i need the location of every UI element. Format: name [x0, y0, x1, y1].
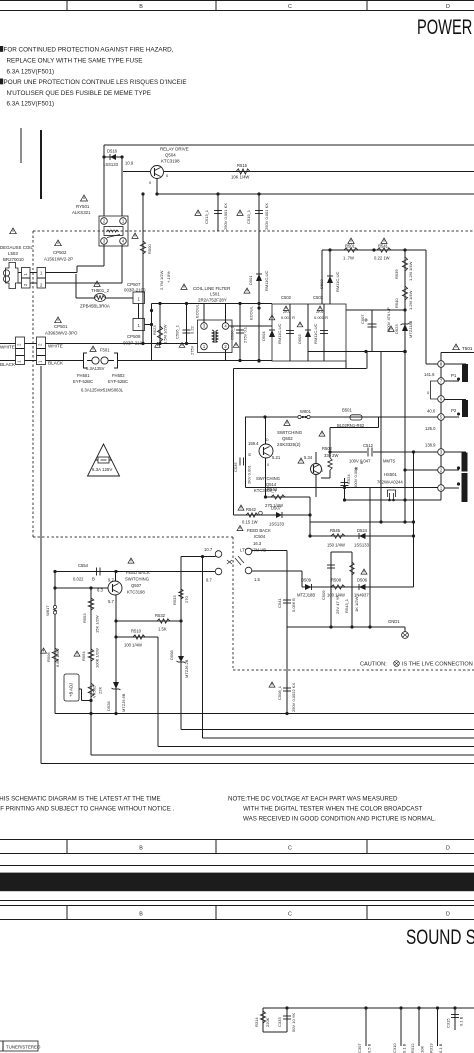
svg-text:100 1/4W: 100 1/4W [124, 643, 142, 648]
svg-text:1: 1 [138, 297, 141, 302]
svg-text:10.7: 10.7 [204, 547, 213, 552]
svg-text:C509: C509 [321, 590, 326, 600]
svg-text:1: 1 [23, 273, 28, 276]
svg-text:D: D [446, 912, 450, 918]
svg-text:0.22: 0.22 [190, 325, 195, 334]
svg-text:0.5 B: 0.5 B [367, 1043, 372, 1053]
svg-text:R312: R312 [410, 1043, 415, 1053]
svg-text:250V 0.0022 KX: 250V 0.0022 KX [291, 683, 296, 712]
svg-text:B: B [359, 461, 364, 464]
svg-text:WHITE: WHITE [48, 344, 63, 349]
svg-text:EYF-52BC: EYF-52BC [108, 379, 128, 384]
svg-text:FH502: FH502 [112, 373, 125, 378]
svg-text:2KV 0.001: 2KV 0.001 [247, 465, 252, 484]
svg-text:POUR UNE PROTECTION CONTINUE L: POUR UNE PROTECTION CONTINUE LES RISQUES… [4, 79, 187, 86]
svg-text:C333: C333 [277, 1017, 282, 1027]
svg-text:D524: D524 [357, 528, 368, 533]
svg-text:MTZJ5.6B: MTZJ5.6B [121, 693, 126, 712]
svg-text:762WAA0244: 762WAA0244 [377, 480, 403, 485]
svg-text:5.7: 5.7 [108, 599, 114, 604]
svg-text:Q502: Q502 [282, 436, 293, 441]
svg-text:D509: D509 [301, 578, 312, 583]
svg-text:Q504: Q504 [165, 153, 176, 158]
svg-text:B501: B501 [342, 408, 352, 413]
svg-text:CP501: CP501 [54, 324, 68, 329]
svg-text:W817: W817 [45, 605, 50, 616]
svg-text:N'UTOLISER QUE DES FUSIBLE DE: N'UTOLISER QUE DES FUSIBLE DE MEME TYPE [7, 90, 151, 97]
svg-text:15K 1/2W: 15K 1/2W [95, 615, 100, 633]
svg-text:CP502: CP502 [53, 250, 67, 255]
svg-text:10K: 10K [420, 1046, 425, 1053]
svg-text:B: B [139, 846, 143, 852]
svg-text:D: D [266, 438, 269, 442]
svg-text:R: R [247, 453, 252, 456]
svg-text:R545: R545 [330, 528, 341, 533]
svg-text:KTC3198: KTC3198 [161, 159, 180, 164]
svg-text:C: C [288, 912, 292, 918]
svg-text:D502: D502 [319, 279, 324, 289]
svg-text:R510: R510 [131, 629, 142, 634]
svg-text:6.3A125Vor51MS063L: 6.3A125Vor51MS063L [81, 388, 124, 393]
svg-text:FOR CONTINUED PROTECTION AGAIN: FOR CONTINUED PROTECTION AGAINST FIRE HA… [4, 47, 174, 54]
svg-text:MTZJ18B: MTZJ18B [297, 593, 315, 598]
svg-text:A1561WV2-2P: A1561WV2-2P [44, 257, 73, 262]
svg-text:ZPB45BL3R0A: ZPB45BL3R0A [80, 304, 110, 309]
svg-text:P1: P1 [451, 373, 457, 378]
svg-text:MTZJ6.2B: MTZJ6.2B [184, 659, 189, 678]
svg-text:POWER SUPPLY: POWER SUPPLY [417, 15, 474, 39]
svg-text:C535: C535 [233, 462, 238, 472]
svg-text:0: 0 [321, 469, 323, 473]
svg-text:1: 1 [40, 270, 43, 275]
svg-text:250V 0.001 KX: 250V 0.001 KX [223, 203, 228, 230]
svg-text:2: 2 [38, 343, 43, 346]
svg-text:275V: 275V [190, 345, 195, 355]
svg-text:BLACK: BLACK [0, 362, 16, 367]
svg-text:C524: C524 [346, 474, 351, 484]
svg-text:RELAY DRIVE: RELAY DRIVE [160, 147, 189, 152]
svg-text:0.001 R: 0.001 R [281, 315, 295, 320]
svg-text:1: 1 [138, 323, 141, 328]
svg-text:2: 2 [17, 343, 22, 346]
svg-text:L501: L501 [210, 292, 220, 297]
svg-text:D507: D507 [271, 506, 282, 511]
svg-text:0.056 B: 0.056 B [291, 598, 296, 612]
svg-text:2R2A752F28Y: 2R2A752F28Y [198, 298, 227, 303]
svg-text:R542: R542 [246, 507, 257, 512]
svg-text:R540: R540 [394, 298, 399, 308]
svg-text:FEED BACK: FEED BACK [126, 570, 150, 575]
svg-text:L503: L503 [8, 251, 18, 256]
svg-text:CP508: CP508 [127, 334, 141, 339]
svg-text:R543_1: R543_1 [344, 598, 349, 613]
svg-text:100K 1/2W: 100K 1/2W [95, 648, 100, 668]
svg-text:0.001 R: 0.001 R [314, 315, 328, 320]
svg-text:A3963WV2-3PO: A3963WV2-3PO [45, 331, 78, 336]
svg-text:GND1: GND1 [388, 619, 400, 624]
svg-text:LTV-817M-VB: LTV-817M-VB [240, 548, 266, 553]
svg-text:ECOUL: ECOUL [195, 303, 200, 318]
svg-text:0.1 B: 0.1 B [438, 1043, 443, 1053]
svg-text:0.15 1W: 0.15 1W [242, 520, 258, 525]
svg-text:0: 0 [267, 463, 269, 467]
svg-text:C554: C554 [78, 563, 89, 568]
svg-text:5.34: 5.34 [304, 455, 313, 460]
svg-text:150 1/4W: 150 1/4W [327, 543, 345, 548]
svg-text:RM11C-UC: RM11C-UC [264, 271, 269, 291]
svg-text:2.7M 1/2W: 2.7M 1/2W [159, 270, 164, 290]
svg-text:16.3: 16.3 [253, 541, 262, 546]
svg-text:TUNER/STEREO: TUNER/STEREO [6, 1045, 41, 1050]
svg-text:C519_1: C519_1 [246, 209, 251, 224]
svg-text:WITH THE DIGITAL TESTER WHEN T: WITH THE DIGITAL TESTER WHEN THE COLOR B… [243, 806, 423, 813]
svg-text:R532: R532 [155, 613, 166, 618]
svg-text:RY501: RY501 [76, 204, 90, 209]
svg-text:1.5M 1/2W: 1.5M 1/2W [163, 324, 168, 344]
svg-text:KTC3203_Y: KTC3203_Y [254, 488, 277, 493]
svg-text:P2: P2 [451, 408, 457, 413]
svg-text:50V 10 YK: 50V 10 YK [291, 1013, 296, 1032]
svg-text:0.1 B: 0.1 B [402, 1043, 407, 1053]
svg-text:C: C [288, 846, 292, 852]
svg-text:HS501: HS501 [384, 472, 397, 477]
svg-text:B: B [139, 912, 143, 918]
svg-text:5.21: 5.21 [272, 455, 281, 460]
svg-text:25V 47 YK: 25V 47 YK [335, 595, 340, 614]
svg-text:ECOUL: ECOUL [249, 305, 254, 320]
svg-text:C502: C502 [281, 295, 292, 300]
svg-text:FH501: FH501 [77, 373, 90, 378]
svg-text:MMTS: MMTS [383, 459, 396, 464]
svg-text:D508: D508 [169, 650, 174, 660]
svg-text:RM11C-UC: RM11C-UC [335, 272, 340, 292]
svg-text:10K 1/4W: 10K 1/4W [231, 175, 249, 180]
svg-text:1.5K: 1.5K [158, 627, 167, 632]
svg-text:2: 2 [40, 283, 43, 288]
svg-text:MTZJ18B: MTZJ18B [408, 320, 413, 338]
svg-text:Q514: Q514 [266, 482, 277, 487]
svg-text:6.8K 1/4W: 6.8K 1/4W [55, 648, 60, 667]
svg-text:R502: R502 [322, 446, 333, 451]
svg-text:D501: D501 [248, 275, 253, 285]
svg-text:B: B [92, 577, 95, 582]
svg-text:9.7: 9.7 [206, 578, 212, 583]
svg-text:0.022: 0.022 [73, 577, 84, 582]
svg-text:WHITE: WHITE [0, 345, 15, 350]
svg-text:0.1 B: 0.1 B [459, 1016, 464, 1026]
svg-text:6.3A125V: 6.3A125V [86, 366, 105, 371]
svg-text:F501: F501 [100, 348, 110, 353]
svg-text:D506: D506 [357, 578, 368, 583]
svg-text:REPLACE ONLY WITH THE SAME TYP: REPLACE ONLY WITH THE SAME TYPE FUSE [7, 58, 143, 65]
svg-text:NOTE:THE DC VOLTAGE AT EACH PA: NOTE:THE DC VOLTAGE AT EACH PART WAS MEA… [228, 796, 398, 803]
svg-text:CP507: CP507 [127, 282, 141, 287]
svg-text:R313: R313 [429, 1043, 434, 1053]
svg-text:220K: 220K [265, 1017, 270, 1027]
svg-text:40.0: 40.0 [427, 409, 436, 414]
svg-text:1.2M 1/4W: 1.2M 1/4W [408, 290, 413, 310]
svg-text:R515: R515 [237, 163, 248, 168]
svg-text:+B ADJ: +B ADJ [69, 683, 74, 697]
svg-text:6.3A 125V: 6.3A 125V [92, 467, 112, 472]
svg-text:138.9: 138.9 [425, 443, 436, 448]
svg-text:SOUND SECTION: SOUND SECTION [406, 925, 474, 949]
svg-text:1.2M 1/4W: 1.2M 1/4W [408, 261, 413, 281]
svg-text:6.3A 125V(F501): 6.3A 125V(F501) [7, 68, 55, 75]
svg-text:Q507: Q507 [131, 583, 142, 588]
svg-text:C541: C541 [277, 598, 282, 608]
svg-text:VR502: VR502 [92, 685, 97, 698]
svg-text:250V 0.001 KX: 250V 0.001 KX [264, 203, 269, 230]
svg-text:1: 1 [38, 360, 43, 363]
svg-text:EYF-52BC: EYF-52BC [73, 379, 93, 384]
svg-text:R500: R500 [147, 244, 152, 254]
svg-text:2: 2 [23, 283, 28, 286]
svg-text:D: D [446, 4, 450, 10]
svg-text:SWITCHING: SWITCHING [277, 430, 303, 435]
svg-text:BR270010: BR270010 [3, 257, 24, 262]
svg-text:C315: C315 [446, 1018, 451, 1028]
svg-text:2KV: 2KV [316, 309, 324, 314]
svg-text:1SS133: 1SS133 [269, 522, 285, 527]
svg-text:C505_1: C505_1 [175, 324, 180, 339]
svg-text:ALKS321: ALKS321 [72, 210, 91, 215]
svg-text:SWITCHING: SWITCHING [256, 476, 280, 481]
svg-text:270: 270 [184, 596, 189, 603]
svg-text:C310: C310 [392, 1043, 397, 1053]
svg-text:1.5: 1.5 [254, 577, 260, 582]
svg-text:C508_1: C508_1 [277, 685, 282, 700]
svg-text:FEED BACK: FEED BACK [247, 528, 271, 533]
svg-text:1: 1 [17, 360, 22, 363]
svg-text:159.4: 159.4 [248, 441, 259, 446]
svg-text:330 2W: 330 2W [324, 453, 338, 458]
svg-text:D503: D503 [297, 334, 302, 344]
svg-text:C: C [288, 4, 292, 10]
svg-text:R554: R554 [81, 651, 86, 661]
svg-text:KTC3198: KTC3198 [127, 590, 145, 595]
svg-text:BLACK: BLACK [48, 361, 64, 366]
svg-text:WAS RECEIVED IN GOOD CONDITION: WAS RECEIVED IN GOOD CONDITION AND PICTU… [243, 816, 436, 823]
svg-text:275V 0.1: 275V 0.1 [243, 326, 248, 343]
svg-text:THIS SCHEMATIC DIAGRAM IS THE: THIS SCHEMATIC DIAGRAM IS THE LATEST AT … [0, 796, 161, 803]
svg-text:D504: D504 [261, 331, 266, 341]
svg-text:IS THE LIVE CONNECTION: IS THE LIVE CONNECTION [402, 662, 473, 668]
svg-text:C507: C507 [360, 314, 365, 324]
svg-text:0: 0 [166, 173, 169, 178]
svg-text:C307: C307 [357, 1043, 362, 1053]
svg-text:SWITCHING: SWITCHING [125, 577, 149, 582]
svg-text:D528: D528 [106, 701, 111, 711]
svg-text:R539: R539 [394, 269, 399, 279]
svg-text:22K: 22K [98, 687, 103, 694]
svg-text:B: B [139, 4, 143, 10]
svg-text:1SS133: 1SS133 [103, 162, 119, 167]
svg-text:R553: R553 [82, 613, 87, 623]
svg-text:2SK3326(2): 2SK3326(2) [277, 442, 301, 447]
svg-text:TH501_2: TH501_2 [91, 288, 110, 293]
svg-text:COIL,LINE FILTER: COIL,LINE FILTER [193, 286, 230, 291]
svg-text:10.9: 10.9 [125, 161, 134, 166]
svg-text:C512: C512 [363, 443, 374, 448]
svg-text:R533: R533 [172, 595, 177, 605]
svg-text:+-10%: +-10% [166, 271, 171, 283]
svg-text:R523: R523 [152, 325, 157, 335]
svg-text:R314: R314 [254, 1017, 259, 1027]
svg-text:6.3A 125V(F501): 6.3A 125V(F501) [7, 101, 55, 108]
svg-text:0: 0 [149, 180, 152, 185]
svg-text:D: D [446, 846, 450, 852]
svg-text:D523: D523 [394, 324, 399, 334]
svg-text:RM11C-UC: RM11C-UC [313, 324, 318, 344]
svg-text:C513_1: C513_1 [204, 209, 209, 224]
svg-text:125.0: 125.0 [425, 426, 436, 431]
svg-text:CAUTION:: CAUTION: [360, 662, 387, 668]
svg-text:RM11C-UC: RM11C-UC [277, 324, 282, 344]
svg-text:D516: D516 [107, 149, 118, 154]
svg-text:1K 1/2W: 1K 1/2W [354, 596, 359, 612]
svg-text:500V 0.001: 500V 0.001 [353, 467, 358, 488]
svg-text:1SS133: 1SS133 [354, 543, 370, 548]
svg-text:R508: R508 [331, 578, 342, 583]
svg-text:1 .7W: 1 .7W [343, 256, 354, 261]
svg-text:IC504: IC504 [254, 534, 266, 539]
svg-text:DEGAUSS COIL: DEGAUSS COIL [0, 245, 33, 250]
svg-text:W801: W801 [300, 409, 312, 414]
svg-text:141.6: 141.6 [424, 372, 435, 377]
svg-text:R506: R506 [46, 652, 51, 662]
svg-text:0.22 1W: 0.22 1W [374, 256, 390, 261]
svg-text:0: 0 [427, 390, 430, 395]
svg-text:OF PRINTING AND SUBJECT TO CHA: OF PRINTING AND SUBJECT TO CHANGE WITHOU… [0, 806, 174, 813]
svg-text:T501: T501 [462, 346, 473, 351]
